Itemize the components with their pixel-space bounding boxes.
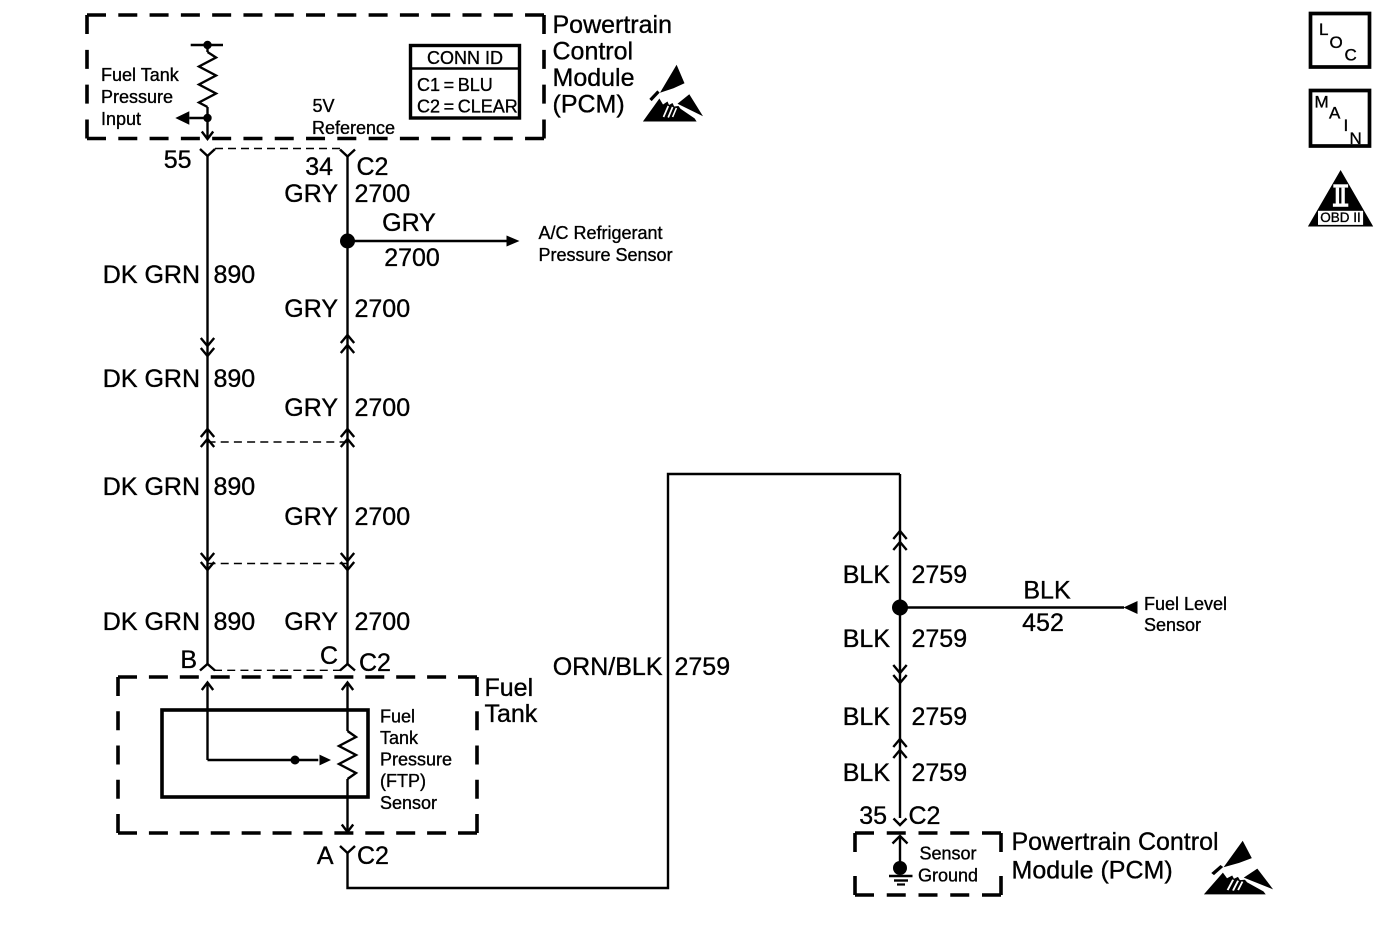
svg-text:BLK: BLK [1023,577,1071,605]
svg-text:C2 = CLEAR: C2 = CLEAR [417,97,518,117]
svg-text:O: O [1330,33,1343,52]
svg-text:N: N [1350,129,1362,148]
svg-text:2759: 2759 [912,561,968,589]
svg-text:35: 35 [859,802,887,830]
svg-text:OBD II: OBD II [1320,210,1361,225]
svg-text:B: B [180,646,197,674]
svg-text:CONN ID: CONN ID [427,48,503,68]
svg-text:BLK: BLK [843,625,891,653]
svg-text:Ground: Ground [918,866,978,886]
svg-text:Sensor: Sensor [920,844,977,864]
svg-text:C2: C2 [909,802,941,830]
svg-text:890: 890 [214,261,256,289]
svg-text:Fuel Tank: Fuel Tank [101,65,180,85]
svg-text:Tank: Tank [485,700,538,728]
svg-text:Control: Control [553,38,634,66]
svg-text:Fuel Level: Fuel Level [1144,594,1227,614]
svg-text:GRY: GRY [284,394,338,422]
svg-text:2759: 2759 [912,703,968,731]
svg-text:GRY: GRY [284,295,338,323]
svg-text:BLK: BLK [843,759,891,787]
svg-text:Tank: Tank [380,728,419,748]
svg-text:BLK: BLK [843,561,891,589]
svg-text:DK GRN: DK GRN [103,473,200,501]
svg-text:Reference: Reference [312,118,395,138]
svg-text:C2: C2 [357,153,389,181]
svg-text:890: 890 [214,365,256,393]
svg-text:452: 452 [1022,609,1064,637]
svg-text:Sensor: Sensor [1144,615,1201,635]
svg-text:Sensor: Sensor [380,793,437,813]
svg-text:890: 890 [214,608,256,636]
svg-text:GRY: GRY [382,209,436,237]
svg-text:DK GRN: DK GRN [103,365,200,393]
svg-text:A/C Refrigerant: A/C Refrigerant [539,223,663,243]
svg-text:Input: Input [101,109,141,129]
svg-text:GRY: GRY [284,608,338,636]
svg-text:DK GRN: DK GRN [103,261,200,289]
svg-text:C1 = BLU: C1 = BLU [417,75,493,95]
svg-text:C2: C2 [357,842,389,870]
svg-text:2700: 2700 [355,394,411,422]
svg-text:GRY: GRY [284,180,338,208]
svg-text:2759: 2759 [675,653,731,681]
svg-text:Pressure: Pressure [380,750,452,770]
svg-text:Pressure: Pressure [101,87,173,107]
svg-text:C2: C2 [359,649,391,677]
svg-text:Pressure Sensor: Pressure Sensor [539,245,673,265]
svg-text:Module: Module [553,64,635,92]
svg-text:I: I [1344,116,1349,135]
svg-text:BLK: BLK [843,703,891,731]
svg-text:C: C [1345,46,1357,65]
svg-text:2759: 2759 [912,759,968,787]
svg-text:DK GRN: DK GRN [103,608,200,636]
svg-text:Powertrain Control: Powertrain Control [1012,828,1219,856]
svg-text:2759: 2759 [912,625,968,653]
svg-text:2700: 2700 [384,244,440,272]
svg-text:2700: 2700 [355,295,411,323]
svg-text:Module (PCM): Module (PCM) [1012,857,1173,885]
svg-text:55: 55 [164,146,192,174]
svg-text:2700: 2700 [355,608,411,636]
svg-text:C: C [320,642,338,670]
svg-text:2700: 2700 [355,180,411,208]
svg-text:ORN/BLK: ORN/BLK [553,653,663,681]
svg-text:34: 34 [305,153,333,181]
svg-text:M: M [1315,93,1329,112]
svg-text:Fuel: Fuel [380,707,415,727]
svg-text:890: 890 [214,473,256,501]
svg-text:(PCM): (PCM) [553,91,625,119]
svg-text:2700: 2700 [355,503,411,531]
svg-text:L: L [1319,20,1328,39]
svg-text:A: A [1329,104,1341,123]
svg-text:GRY: GRY [284,503,338,531]
svg-text:A: A [317,842,334,870]
svg-text:(FTP): (FTP) [380,771,426,791]
svg-text:5V: 5V [313,96,335,116]
svg-text:Fuel: Fuel [485,674,534,702]
svg-text:Powertrain: Powertrain [553,11,673,39]
